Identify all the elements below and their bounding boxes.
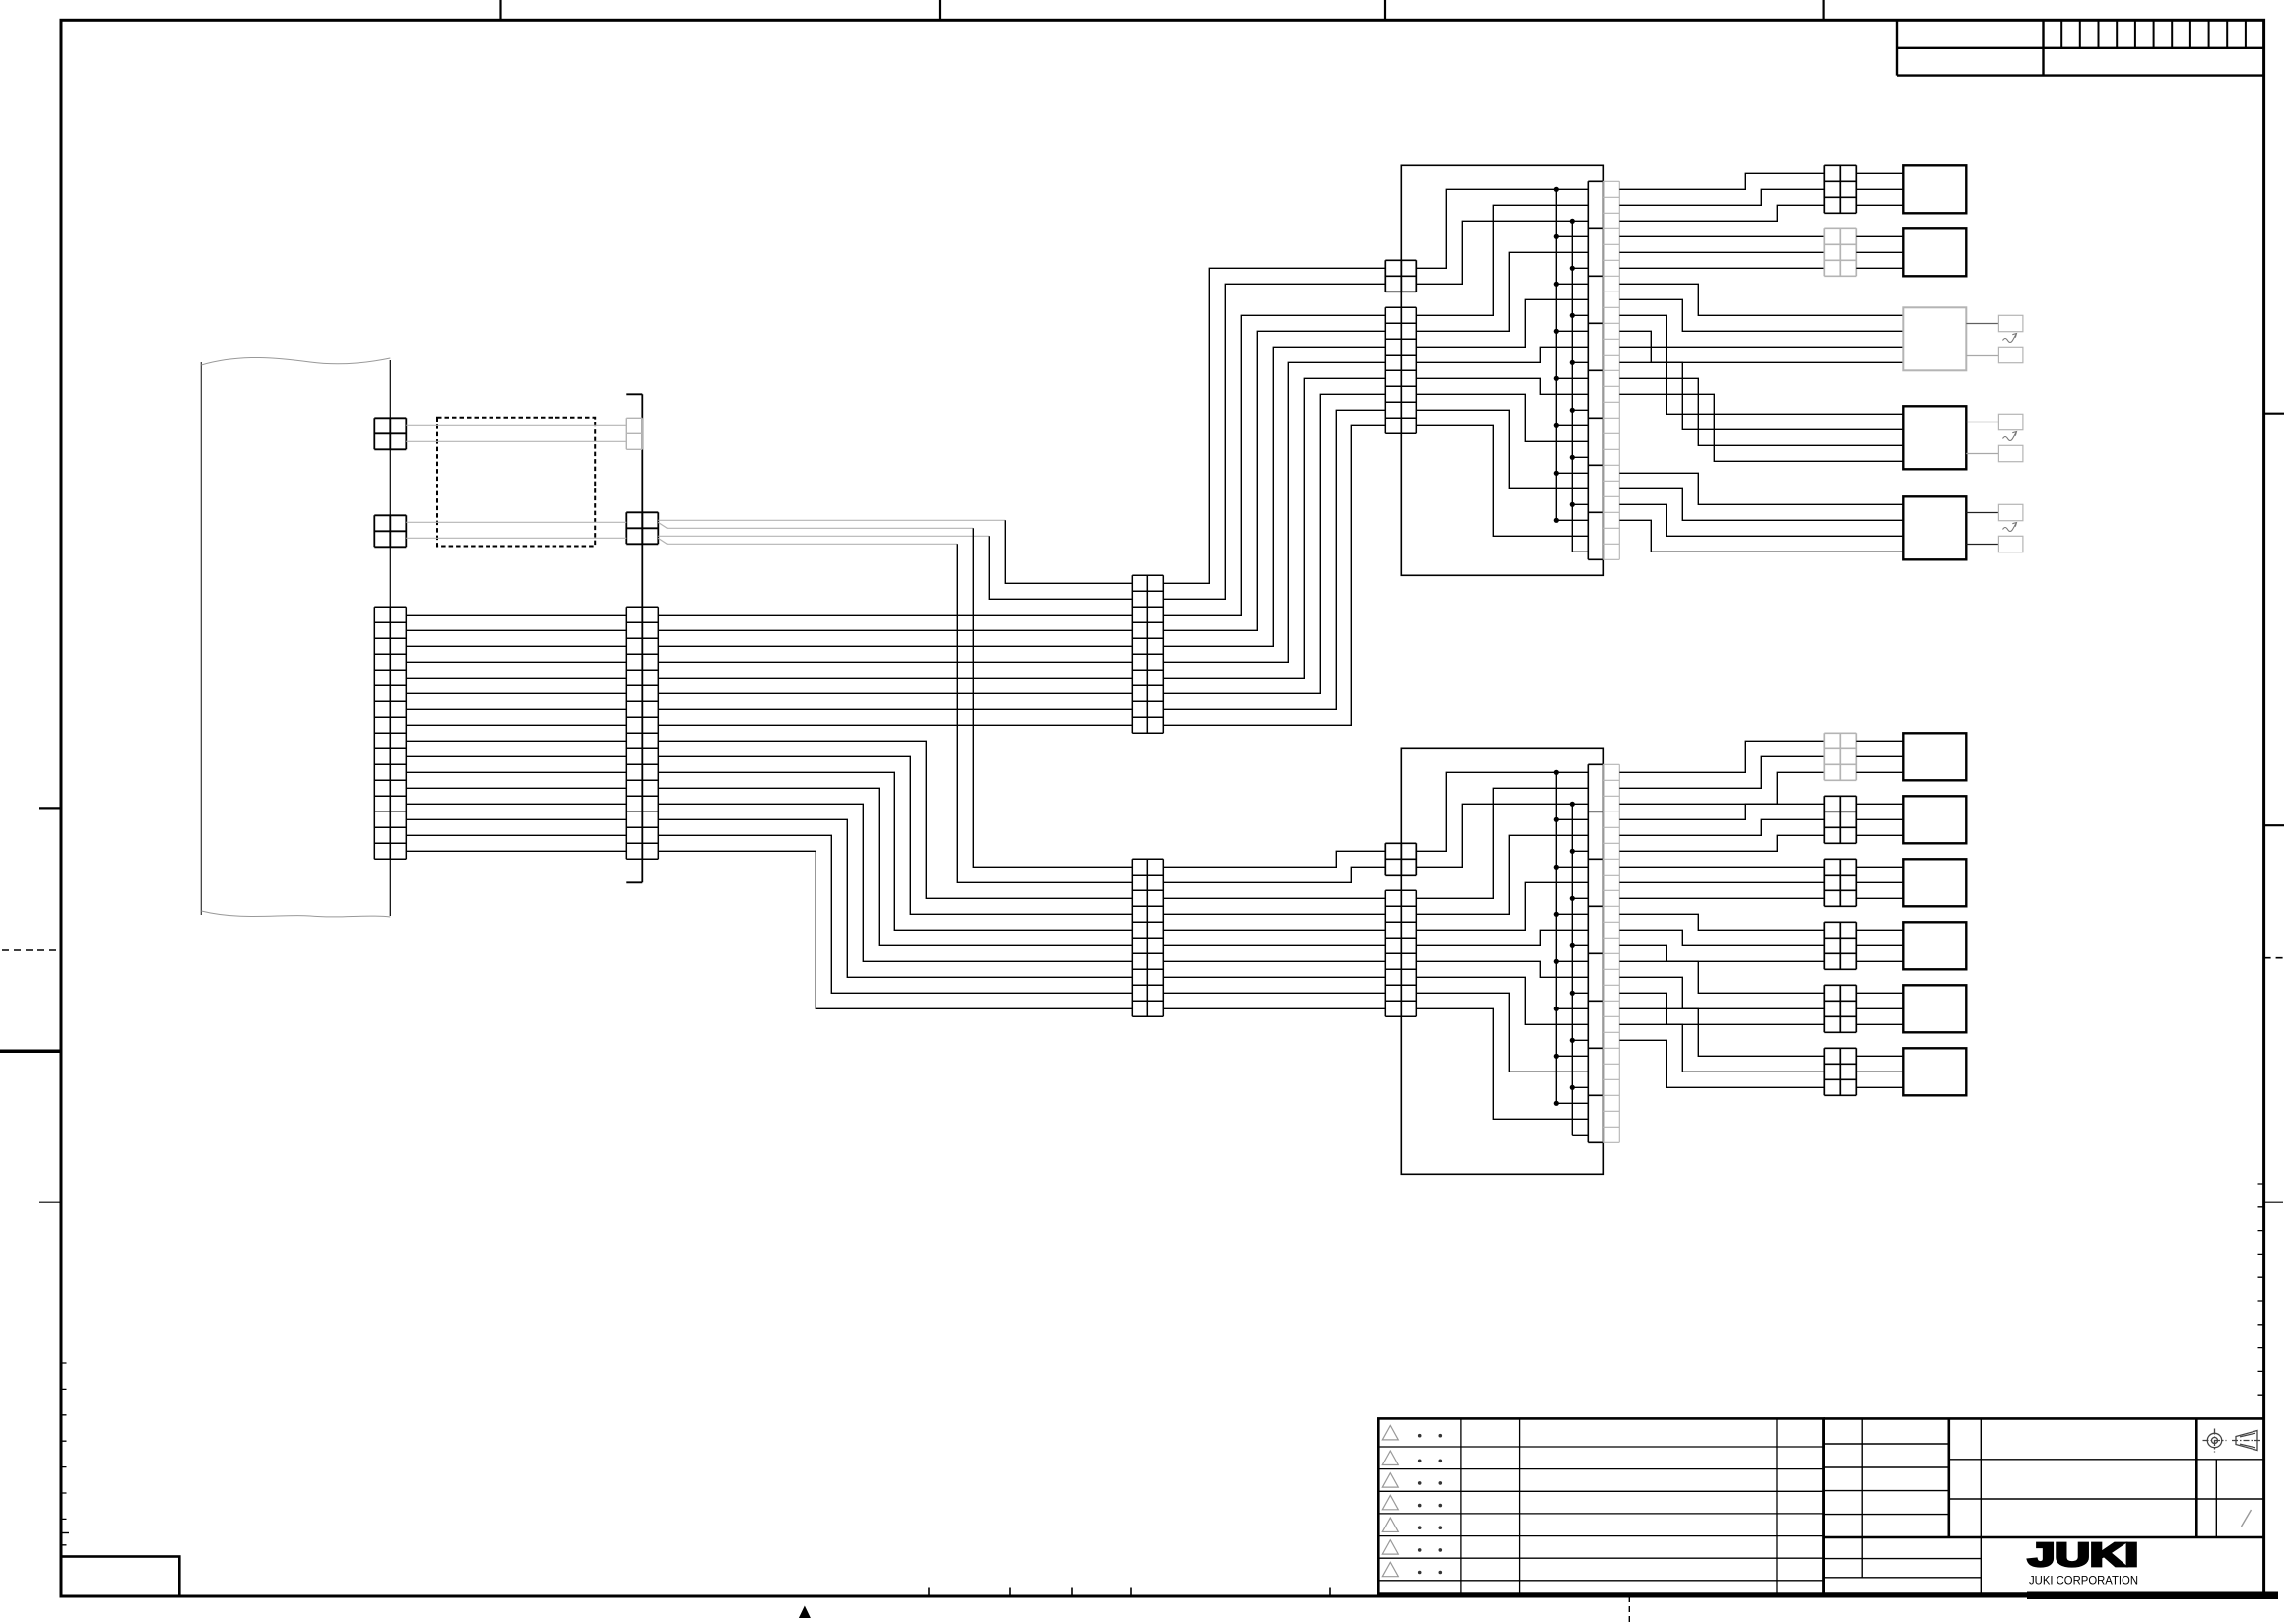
- squiggle symbol U3: [2003, 334, 2017, 343]
- wire L5 conn to box 2: [1856, 1007, 1903, 1009]
- wire J2 signal 7 staircase: [1416, 993, 1588, 1072]
- wire CN-E row 10 to junction J2 stack: [1163, 1007, 1385, 1009]
- wire CN-D pin 8 to mid-column: [658, 724, 1132, 726]
- aux box U4 lower: [1998, 445, 2022, 461]
- wire CN-D pin 11 to CN-E: [658, 772, 1132, 930]
- squiggle symbol U4: [2003, 432, 2017, 441]
- wire harness conductor 15: [406, 834, 626, 836]
- revision triangle row 7: [1382, 1562, 1398, 1576]
- wire J2 signal 1 staircase: [1416, 788, 1588, 898]
- junction J1 left connector (8-pin): [1385, 307, 1416, 433]
- wire CN-E row 2 to junction J2 pin 2: [1163, 867, 1385, 882]
- top fold tick 3: [1384, 0, 1386, 20]
- wire CN-M1 row 9 to junction J1 pin: [1163, 410, 1385, 709]
- harness cable right edge: [389, 360, 391, 916]
- wire L3 lead 3: [1619, 897, 1824, 899]
- title block outer top edge: [1824, 1417, 2264, 1420]
- wire J2 signal 3 staircase: [1416, 882, 1588, 930]
- wire L2 lead 2: [1619, 819, 1824, 835]
- wire CN-D pin 1 to mid-column: [658, 614, 1132, 616]
- wire U4 lead 2: [1619, 362, 1903, 429]
- wire J1 signal 7 staircase: [1416, 410, 1588, 488]
- junction J2 output column ghost cells: [1603, 764, 1619, 1142]
- junction J1 output column (8 groups): [1588, 181, 1603, 559]
- revision table row lines: [1378, 1447, 1823, 1581]
- svg-text:JUKI: JUKI: [2028, 1536, 2138, 1573]
- wire U1 lead 3: [1619, 205, 1824, 221]
- wire CN-E row 5 to junction J2 stack: [1163, 929, 1385, 931]
- left border ruler ticks: [61, 1363, 67, 1545]
- revision triangle row 2: [1382, 1451, 1398, 1464]
- connector L5: [1824, 985, 1856, 1032]
- wire L4 lead 3: [1619, 945, 1824, 961]
- wire CN-D pin 10 to CN-E: [658, 756, 1132, 914]
- title block bottom edge: [1824, 1592, 2264, 1595]
- svg-text:JUKI CORPORATION: JUKI CORPORATION: [2029, 1575, 2138, 1588]
- title block thick vertical b: [1948, 1418, 1951, 1537]
- wire U5 aux lead 2: [1966, 544, 1998, 546]
- wire L5 lead 1: [1619, 961, 1824, 993]
- wire J1 signal 6 staircase: [1416, 394, 1588, 441]
- revision table column lines: [1461, 1418, 1777, 1593]
- bus B vertical J2: [1571, 804, 1573, 1135]
- wire CN-D pin 14 to CN-E: [658, 819, 1132, 977]
- bus A vertical J1: [1555, 189, 1557, 520]
- wire harness conductor 6: [406, 692, 626, 694]
- component box L5: [1903, 985, 1966, 1032]
- wire CN-M1 row 4 to junction J1 pin: [1163, 331, 1385, 630]
- wire (shield pair A1): [406, 424, 626, 426]
- left center fold mark: [0, 1050, 61, 1054]
- wire J1 signal 2 staircase: [1416, 252, 1588, 331]
- wire CN-D pin 13 to CN-E: [658, 804, 1132, 961]
- title block thick middle line: [1824, 1536, 2264, 1539]
- title block slash mark: [2242, 1510, 2252, 1527]
- wire CN-E row 4 to junction J2 stack: [1163, 913, 1385, 915]
- revision date dots row 3: [1418, 1481, 1422, 1485]
- wire CN-E row 9 to junction J2 stack: [1163, 992, 1385, 994]
- connector U1: [1824, 165, 1856, 213]
- bottom margin nub 5: [1329, 1588, 1331, 1597]
- wire harness conductor 9: [406, 740, 626, 742]
- wire L3 conn to box 3: [1856, 897, 1903, 899]
- wire J2 signal 6 staircase: [1416, 977, 1588, 1024]
- wire L6 conn to box 3: [1856, 1086, 1903, 1088]
- wire L2 lead 1: [1619, 804, 1824, 819]
- wire U2 lead 1: [1619, 235, 1824, 237]
- revision date dots row 1: [1418, 1434, 1422, 1438]
- wire (net P1 gray run): [658, 519, 1005, 521]
- component box U1: [1903, 165, 1966, 213]
- wire J1 signal 5 staircase: [1416, 378, 1588, 394]
- wire (shield pair A2): [406, 440, 626, 442]
- wire U5 lead 1: [1619, 473, 1903, 504]
- wire harness conductor 1: [406, 614, 626, 616]
- wire L4 lead 1: [1619, 914, 1824, 930]
- wire J1 common B feed: [1416, 221, 1588, 284]
- connector CN-A2 (spine, ghost): [626, 418, 642, 449]
- wire (net P4 gray run with drop): [658, 538, 957, 544]
- connector L3: [1824, 859, 1856, 906]
- junction dots bus A J2: [1554, 770, 1559, 775]
- wire L3 conn to box 2: [1856, 881, 1903, 883]
- wire L1 lead 2: [1619, 756, 1824, 788]
- wire CN-E row 3 to junction J2 stack: [1163, 897, 1385, 899]
- wire CN-M1 row 5 to junction J1 pin: [1163, 347, 1385, 646]
- wire U3 lead 1: [1619, 284, 1903, 315]
- wire L3 lead 1: [1619, 866, 1824, 868]
- wire L4 conn to box 3: [1856, 960, 1903, 962]
- wire net P2 down to CN-E row 1: [973, 528, 1132, 867]
- wire (shield pair B1): [406, 521, 626, 523]
- harness cable torn bottom edge: [201, 911, 390, 917]
- wire (net P2 gray run with drop): [658, 522, 973, 528]
- wire U1 lead 1: [1619, 173, 1824, 189]
- wire U1 conn to box 3: [1856, 204, 1903, 206]
- wire L1 lead 3: [1619, 772, 1824, 804]
- wire J1 signal 3 staircase: [1416, 299, 1588, 347]
- top-right corner table: [1897, 20, 2264, 75]
- wire CN-D pin 9 to CN-E: [658, 741, 1132, 898]
- wire net P1 to mid-column row 1: [1005, 520, 1132, 583]
- title block right sub-vertical: [2215, 1460, 2217, 1537]
- connector L1: [1824, 733, 1856, 780]
- bottom-left reference box: [61, 1557, 179, 1597]
- wire CN-M1 row 8 to junction J1 pin: [1163, 394, 1385, 693]
- bus A taps J2: [1556, 819, 1588, 1103]
- component box L4: [1903, 922, 1966, 969]
- bottom margin nub 2: [1009, 1588, 1011, 1597]
- wire U3 lead 3: [1619, 315, 1903, 347]
- wire CN-M1 row 3 to junction J1 pin: [1163, 315, 1385, 615]
- junction box J2 outline: [1401, 748, 1603, 1174]
- bottom center triangle mark: [799, 1606, 811, 1619]
- title block vertical c: [1980, 1418, 1982, 1593]
- wire U5 aux lead 1: [1966, 512, 1998, 514]
- wire L6 lead 2: [1619, 1024, 1824, 1072]
- wire U5 lead 4: [1619, 520, 1903, 552]
- wire harness conductor 8: [406, 724, 626, 726]
- bottom margin nub 4: [1130, 1588, 1132, 1597]
- wire CN-D pin 2 to mid-column: [658, 629, 1132, 631]
- connector CN-B2 (spine, 2-pin): [626, 512, 658, 544]
- component box L3: [1903, 859, 1966, 906]
- wire L4 conn to box 1: [1856, 929, 1903, 931]
- right margin tick 3: [2264, 1202, 2283, 1203]
- wire CN-D pin 15 to CN-E: [658, 835, 1132, 993]
- wire U2 conn to box 2: [1856, 251, 1903, 253]
- bottom dashed fold line: [1628, 1596, 1630, 1623]
- wire U1 conn to box 2: [1856, 188, 1903, 190]
- title block thick divider left: [1822, 1418, 1825, 1593]
- wire harness conductor 13: [406, 803, 626, 805]
- wire L4 lead 2: [1619, 930, 1824, 945]
- harness cable torn top edge: [201, 357, 390, 365]
- connector CN-D (spine, 16-pin): [626, 607, 658, 859]
- wire CN-D pin 12 to CN-E: [658, 788, 1132, 945]
- wire CN-M1 row 6 to junction J1 pin: [1163, 362, 1385, 662]
- connector U2: [1824, 228, 1856, 276]
- bus A taps J1: [1556, 236, 1588, 520]
- wire CN-D pin 4 to mid-column: [658, 661, 1132, 663]
- junction J2 output column (8 groups): [1588, 764, 1603, 1142]
- wire CN-D pin 7 to mid-column: [658, 708, 1132, 710]
- wire J2 common A feed: [1416, 772, 1588, 851]
- right border ruler ticks: [2258, 1184, 2264, 1395]
- component box L1: [1903, 733, 1966, 780]
- revision triangle row 5: [1382, 1518, 1398, 1531]
- junction J1 output column ghost cells: [1603, 181, 1619, 559]
- connector CN-C (cable, 16-pin): [374, 607, 406, 859]
- left margin dashed mark: [2, 949, 61, 951]
- wire CN-M1 row 2 to junction J1 pin: [1163, 284, 1385, 599]
- bottom margin nub 1: [928, 1588, 930, 1597]
- wire U5 lead 2: [1619, 488, 1903, 520]
- wire CN-D pin 5 to mid-column: [658, 677, 1132, 679]
- aux box U3 lower: [1998, 347, 2022, 362]
- harness cable left edge: [200, 362, 202, 915]
- wire L2 conn to box 1: [1856, 803, 1903, 805]
- wire harness conductor 12: [406, 787, 626, 789]
- dashed option box: [437, 418, 595, 547]
- wire CN-D pin 16 to CN-E: [658, 851, 1132, 1008]
- wire CN-E row 8 to junction J2 stack: [1163, 976, 1385, 978]
- connector L6: [1824, 1048, 1856, 1095]
- JUKI black bar: [2027, 1592, 2278, 1600]
- third-angle projection symbol: [2203, 1429, 2262, 1453]
- junction J2 left connector (2-pin): [1385, 843, 1416, 875]
- wire J1 common A feed: [1416, 189, 1588, 268]
- wire J1 signal 1 staircase: [1416, 205, 1588, 315]
- component box L6: [1903, 1048, 1966, 1095]
- junction dots bus B J1: [1570, 219, 1575, 224]
- junction J1 left connector (2-pin): [1385, 260, 1416, 292]
- revision date dots row 2: [1418, 1460, 1422, 1463]
- component box U2: [1903, 228, 1966, 276]
- wire harness conductor 4: [406, 661, 626, 663]
- bus A vertical J2: [1555, 772, 1557, 1103]
- revision triangle row 3: [1382, 1473, 1398, 1487]
- left border small nub: [61, 1532, 69, 1534]
- wire CN-M1 row 7 to junction J1 pin: [1163, 378, 1385, 678]
- wire L3 lead 2: [1619, 881, 1824, 883]
- revision date dots row 5: [1418, 1526, 1422, 1529]
- wire CN-D pin 6 to mid-column: [658, 692, 1132, 694]
- component box U4: [1903, 406, 1966, 469]
- junction box J1 outline: [1401, 165, 1603, 575]
- wire L5 lead 3: [1619, 993, 1824, 1024]
- wire L6 lead 1: [1619, 1008, 1824, 1056]
- aux box U5 lower: [1998, 536, 2022, 552]
- wire L5 lead 2: [1619, 977, 1824, 1008]
- wire harness conductor 10: [406, 755, 626, 757]
- wire J1 signal 8 staircase: [1416, 425, 1588, 536]
- wire U3 aux lead 2: [1966, 355, 1998, 357]
- wire U4 lead 3: [1619, 378, 1903, 445]
- wire U2 lead 2: [1619, 251, 1824, 253]
- wire L1 conn to box 2: [1856, 755, 1903, 757]
- wire L1 conn to box 3: [1856, 771, 1903, 773]
- wire L6 conn to box 2: [1856, 1071, 1903, 1072]
- wire U1 conn to box 1: [1856, 172, 1903, 174]
- wire CN-D pin 3 to mid-column: [658, 645, 1132, 647]
- connector L2: [1824, 796, 1856, 843]
- title block vertical line a: [1861, 1418, 1863, 1577]
- wire harness conductor 5: [406, 677, 626, 679]
- wire J2 signal 4 staircase: [1416, 930, 1588, 945]
- wire J2 common B feed: [1416, 804, 1588, 867]
- wire net P3 to mid-column row 2: [989, 536, 1132, 599]
- wire CN-M1 row 1 to junction J1 pin: [1163, 268, 1385, 583]
- wire U2 lead 3: [1619, 267, 1824, 269]
- wire harness conductor 2: [406, 629, 626, 631]
- wire J2 signal 2 staircase: [1416, 835, 1588, 914]
- wire L2 conn to box 3: [1856, 834, 1903, 836]
- top fold tick 1: [499, 0, 501, 20]
- revision triangle row 4: [1382, 1495, 1398, 1509]
- title block approval grid rows: [1824, 1444, 1949, 1515]
- junction dots bus A J1: [1554, 187, 1559, 192]
- wire L2 lead 3: [1619, 835, 1824, 851]
- wire L2 conn to box 2: [1856, 818, 1903, 820]
- top-right corner small cells: [2061, 20, 2246, 48]
- connector CN-A (cable, 2-pin): [374, 418, 406, 449]
- wire L6 conn to box 1: [1856, 1055, 1903, 1057]
- wire U4 lead 4: [1619, 394, 1903, 461]
- right margin tick 2: [2264, 824, 2284, 826]
- wire U3 lead 4: [1619, 331, 1903, 362]
- wire harness conductor 14: [406, 818, 626, 820]
- wire U4 aux lead 2: [1966, 453, 1998, 455]
- bottom margin nub 3: [1071, 1588, 1073, 1597]
- wire L3 conn to box 1: [1856, 866, 1903, 868]
- revision date dots row 4: [1418, 1504, 1422, 1508]
- junction dots bus B J2: [1570, 802, 1575, 807]
- title block right rows: [1949, 1460, 2264, 1499]
- bus B taps J1: [1572, 268, 1588, 552]
- wire harness conductor 3: [406, 645, 626, 647]
- wire L6 lead 3: [1619, 1040, 1824, 1087]
- wire L5 conn to box 3: [1856, 1023, 1903, 1025]
- wire CN-E row 6 to junction J2 stack: [1163, 944, 1385, 946]
- left margin tick: [39, 807, 61, 809]
- revision table frame: [1378, 1418, 1823, 1593]
- spine top bracket: [626, 393, 642, 395]
- aux box U3 upper: [1998, 315, 2022, 331]
- wire U5 lead 3: [1619, 504, 1903, 536]
- right margin tick: [2264, 413, 2284, 415]
- wire harness conductor 7: [406, 708, 626, 710]
- spine cable line: [641, 394, 643, 882]
- wire J2 signal 8 staircase: [1416, 1008, 1588, 1119]
- wire L5 conn to box 1: [1856, 992, 1903, 994]
- wire CN-E row 7 to junction J2 stack: [1163, 960, 1385, 962]
- left margin tick 2: [39, 1202, 61, 1203]
- wire L4 conn to box 2: [1856, 944, 1903, 946]
- right margin dashed mark: [2264, 957, 2283, 959]
- wire U4 lead 1: [1619, 347, 1903, 414]
- wire (shield pair B2): [406, 537, 626, 539]
- wire net P4 down to CN-E row 2: [957, 544, 1132, 882]
- squiggle symbol U5: [2003, 523, 2017, 532]
- connector CN-M1 (upper mid, 10-pin): [1132, 575, 1163, 733]
- connector L4: [1824, 922, 1856, 969]
- wire harness conductor 11: [406, 771, 626, 773]
- revision date dots row 6: [1418, 1548, 1422, 1552]
- wire U3 aux lead 1: [1966, 323, 1998, 325]
- wire L1 lead 1: [1619, 741, 1824, 772]
- top fold tick 4: [1822, 0, 1824, 20]
- revision date dots row 7: [1418, 1571, 1422, 1575]
- wire CN-E row 1 to junction J2 pin 1: [1163, 851, 1385, 867]
- title block lower rows: [1824, 1559, 1982, 1578]
- wire U2 conn to box 1: [1856, 235, 1903, 237]
- connector CN-B (cable, 2-pin): [374, 515, 406, 547]
- aux box U5 upper: [1998, 504, 2022, 520]
- wire CN-M1 row 10 to junction J1 pin: [1163, 425, 1385, 725]
- wire U4 aux lead 1: [1966, 422, 1998, 423]
- wire L1 conn to box 1: [1856, 740, 1903, 742]
- wire U2 conn to box 3: [1856, 267, 1903, 269]
- aux box U4 upper: [1998, 414, 2022, 429]
- wire (net P3 gray run): [658, 535, 989, 537]
- component box U3: [1903, 307, 1966, 370]
- title block thick vertical d: [2195, 1418, 2198, 1537]
- component box L2: [1903, 796, 1966, 843]
- component box U5: [1903, 496, 1966, 559]
- top fold tick 2: [939, 0, 941, 20]
- revision triangle row 1: [1382, 1426, 1398, 1440]
- wire J2 signal 5 staircase: [1416, 961, 1588, 977]
- bus B taps J2: [1572, 851, 1588, 1135]
- wire J1 signal 4 staircase: [1416, 347, 1588, 362]
- wire U1 lead 2: [1619, 189, 1824, 205]
- revision triangle row 6: [1382, 1540, 1398, 1554]
- junction J2 left connector (8-pin): [1385, 890, 1416, 1016]
- wire harness conductor 16: [406, 850, 626, 852]
- wire U3 lead 2: [1619, 299, 1903, 331]
- connector CN-E (lower mid, 10-pin): [1132, 859, 1163, 1016]
- bus B vertical J1: [1571, 221, 1573, 552]
- spine bottom bracket: [626, 881, 642, 883]
